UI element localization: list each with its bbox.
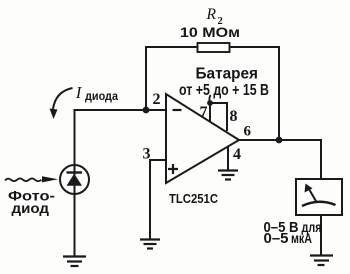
wire feedback left vertical — [145, 46, 147, 110]
current arrowhead — [50, 109, 58, 120]
light wavy arrow — [5, 178, 42, 181]
svg-text:2: 2 — [153, 91, 161, 108]
node junction dot output — [276, 137, 283, 144]
svg-text:6: 6 — [244, 124, 252, 140]
svg-text:диода: диода — [85, 89, 118, 103]
ground under meter — [310, 256, 333, 266]
wire pin3 horizontal — [150, 159, 166, 161]
svg-text:0–5: 0–5 — [264, 230, 289, 247]
photodiode cathode bar — [67, 171, 83, 173]
wire feedback top horizontal — [146, 46, 279, 48]
ground under pin3 — [140, 240, 160, 249]
photodiode circle — [60, 165, 89, 194]
svg-text:3: 3 — [143, 146, 151, 163]
wire +5 pointer tail — [209, 95, 210, 102]
svg-text:мкА: мкА — [291, 231, 312, 246]
resistor R2 — [198, 43, 230, 52]
light arrowhead — [42, 176, 58, 182]
ground under pin4 — [218, 171, 238, 180]
svg-text:10 МОм: 10 МОм — [180, 24, 240, 40]
svg-text:8: 8 — [230, 108, 238, 125]
svg-text:I: I — [75, 83, 83, 102]
meter needle arrowhead — [305, 184, 313, 193]
svg-text:R: R — [206, 6, 217, 23]
op-amp U1 triangle — [166, 94, 239, 183]
node junction dot pin2 — [143, 107, 150, 114]
meter needle — [310, 190, 317, 202]
ground under photodiode — [63, 257, 86, 267]
op-amp minus sign — [173, 109, 182, 111]
node junction dot pin7 battery — [207, 100, 213, 106]
photodiode triangle — [67, 174, 83, 186]
wire meter to ground — [320, 215, 322, 255]
meter scale arc — [302, 202, 336, 206]
wire photodiode vertical — [74, 109, 76, 256]
op-amp plus sign — [168, 164, 178, 174]
wire pin3 vertical to ground — [149, 159, 151, 239]
svg-text:диод: диод — [12, 200, 50, 216]
wire pin7 — [209, 103, 211, 121]
svg-text:от +5 до + 15 В: от +5 до + 15 В — [179, 82, 269, 99]
meter M1 box — [296, 179, 342, 215]
svg-text:Батарея: Батарея — [196, 65, 259, 82]
wire output horizontal — [239, 139, 321, 141]
wire battery bracket pin8 — [209, 103, 227, 131]
svg-text:7: 7 — [200, 104, 208, 121]
wire pin4 to ground — [227, 146, 229, 170]
svg-text:4: 4 — [233, 146, 241, 163]
wire output down to meter — [320, 139, 322, 179]
wire inverting input horizontal — [75, 109, 167, 111]
wire feedback right vertical — [278, 46, 280, 140]
svg-text:TLC251C: TLC251C — [169, 191, 219, 206]
current curved arrow — [53, 88, 73, 109]
